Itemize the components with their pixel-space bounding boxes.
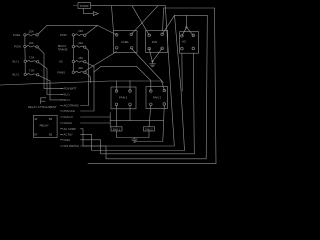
wire mccv fuse down to ACC TRANS row [81,48,89,106]
svg-text:FAN HI: FAN HI [64,121,73,125]
svg-text:20A: 20A [29,29,34,33]
svg-text:FUEL: FUEL [64,138,71,142]
fan motor M1 box [111,127,122,132]
svg-text:15A: 15A [78,56,83,60]
svg-text:7.5A: 7.5A [29,56,35,60]
wire H2 end down to IGN pin 86 [163,8,164,31]
node MCCV TRANS [72,45,74,47]
wire pump drop to arrow [84,9,94,14]
wire mid jog to fan2 coil [94,66,151,91]
wire fan1 87 to motor box [116,106,118,127]
svg-text:AC: AC [182,40,187,44]
svg-text:FANS: FANS [58,70,66,74]
node AC coil apex [186,27,188,29]
svg-text:IGN: IGN [152,40,157,44]
svg-text:AC: AC [59,60,63,64]
ground GND2 fans [132,138,138,143]
svg-text:PCM: PCM [60,33,67,37]
net label list stubs [60,88,63,146]
node AC (fuse row) [72,60,74,62]
relay K4 FAN 1 [111,87,136,109]
svg-text:INJ 2: INJ 2 [12,73,19,77]
fuse F5 15A [75,34,86,36]
connector arrow A1 [93,12,98,16]
fuse value labels [29,29,84,73]
wire dashed stub left of pump box [74,5,78,7]
fan motor M2 box [144,127,155,132]
right slant S5 [81,15,208,159]
net name list [64,87,80,149]
wire fan2 pin 85 down to corner and ground rail [134,105,164,141]
wire fuel relay 87a diagonal to right bus [132,49,164,83]
fuse F8 30A [75,71,86,73]
svg-text:FAN 2: FAN 2 [145,127,153,131]
wire legend stub [41,98,46,104]
wire bus drop to fan1 pin 85 [129,81,131,91]
fuse F3 7.5A [27,60,39,63]
right slant S6 outer [88,8,216,164]
svg-text:20A: 20A [78,41,83,45]
svg-text:PCM IGN: PCM IGN [64,109,75,113]
fuse F2 10A [26,45,38,48]
svg-text:AC COMP: AC COMP [64,127,76,131]
node INJ1 [24,60,26,62]
svg-text:86: 86 [49,117,53,121]
relay K3 AC [180,32,199,54]
svg-text:FAN 1: FAN 1 [113,127,121,131]
wire inj2 fuse to INJ 2 row [39,75,63,100]
wire junction to fuel relay pin 30 [98,25,117,35]
wire mid column chain [72,36,74,71]
svg-text:FAN 1: FAN 1 [119,96,128,100]
wire H3 drop to apex [186,15,188,27]
wire apex to AC pins [182,27,193,36]
svg-text:30A: 30A [78,66,83,70]
svg-text:PCM: PCM [14,45,21,49]
svg-text:FUEL: FUEL [13,33,21,37]
wire fan1 85 to fan speed bus [129,106,131,121]
ground GND1 below IGN relay [150,61,156,67]
wire top feed bus H1 from pump [91,5,166,7]
svg-text:15A: 15A [78,29,83,33]
wire inj1 fuse to INJ 1 row [39,63,63,95]
svg-text:87: 87 [34,133,38,137]
node PCM (mid col) [72,34,74,36]
wire drop from H1 to fuel relay [112,6,114,31]
wire H3 end to IGN relay pin 86 [162,15,174,34]
wire AC pin 30 down [181,53,183,91]
node INJ2 [24,73,26,75]
svg-text:FUEL: FUEL [121,40,129,44]
wire H1 diag to FUEL relay pin 86 [131,6,158,35]
wire FAN HI row down to outer bus [81,113,111,127]
wire bus drop to fan1 pin 86 [116,81,118,91]
wire FAN LO row to fan bus [81,116,111,118]
wire top bus H2 [164,7,215,9]
wire fan speed bus [110,120,163,122]
svg-text:PCM BATT: PCM BATT [64,87,77,91]
svg-text:AC RLY: AC RLY [64,132,73,136]
svg-text:7.5A: 7.5A [29,69,35,73]
svg-text:ACC/TRANS: ACC/TRANS [64,104,79,108]
wire IGN coil pins to ground [149,48,162,61]
wire motors to common ground [117,131,150,138]
relay legend box U1 [34,115,58,137]
svg-text:INJ 1: INJ 1 [64,93,71,97]
wire fuel fuse to top bus [38,25,97,34]
svg-text:TRANS: TRANS [58,47,68,51]
wire fan supply bus [0,81,164,90]
svg-text:INJ 2: INJ 2 [64,98,71,102]
right slant S2 pump feed [81,6,175,146]
svg-text:RELAY ATTACHMENT: RELAY ATTACHMENT [28,105,57,109]
fuse F4 7.5A [27,73,39,75]
svg-text:FAN 2: FAN 2 [153,96,162,100]
fuel pump box P1 [78,3,91,9]
right slant S4 from AC pin 87 [81,53,195,154]
svg-text:30: 30 [34,117,38,121]
fuse F6 20A [75,46,86,49]
node PCM (left col) [24,45,26,47]
relay K2 IGN [146,31,168,53]
fuse row name labels [12,33,21,77]
svg-text:FAN LO: FAN LO [64,115,73,119]
relay K1 FUEL [114,31,138,53]
svg-text:PUMP: PUMP [80,4,89,8]
wire fuel relay 87 diagonal to fans node [86,52,117,71]
svg-text:INJ 1: INJ 1 [12,60,19,64]
wire ac fuse down to PCM IGN row [81,63,95,112]
wire pcm mid fuse to junction [86,25,98,34]
svg-text:10A: 10A [29,41,34,45]
relay K5 FAN 2 [146,87,168,109]
right slant S3 [81,15,185,150]
fuse F1 20A [26,34,38,36]
wire H1 diag to IGN relay pin 85 [132,6,149,36]
svg-text:RELAY: RELAY [40,124,49,128]
wire top bus H3 [175,14,208,16]
wire fans fuse to fan bus [86,73,91,83]
svg-text:85: 85 [49,133,53,137]
wire fan2 87 to motor box [149,106,151,127]
node FUEL [24,34,26,36]
wire left column chain [24,36,26,73]
fuse F7 15A [75,61,86,63]
wire pcm fuse to PCM BATT row [38,48,63,89]
svg-text:IGN SWITCH: IGN SWITCH [64,144,80,148]
node FANS [72,71,74,73]
